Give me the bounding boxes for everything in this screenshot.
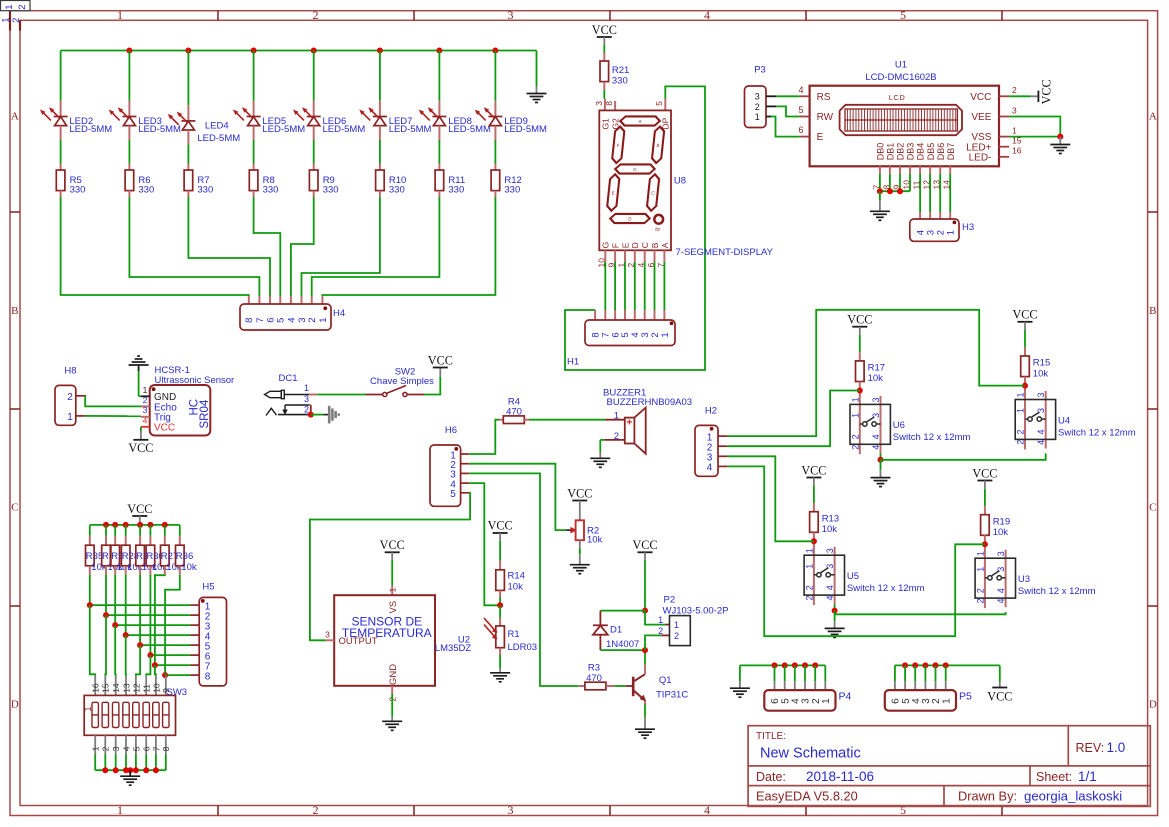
resistor R28 10k bbox=[121, 525, 142, 575]
svg-text:H4: H4 bbox=[333, 308, 345, 319]
svg-text:330: 330 bbox=[197, 185, 213, 196]
svg-text:4: 4 bbox=[707, 463, 713, 474]
sheet corner marker box bbox=[1, 1, 31, 23]
wire H5 pin 5 row bbox=[137, 642, 199, 648]
svg-text:D1: D1 bbox=[610, 624, 622, 635]
svg-text:4: 4 bbox=[871, 445, 881, 450]
svg-text:3: 3 bbox=[508, 8, 514, 22]
ground (U5) bbox=[825, 604, 845, 637]
junction R14/R1/H6.4 bbox=[497, 597, 503, 608]
svg-text:10k: 10k bbox=[868, 373, 884, 384]
svg-text:4: 4 bbox=[143, 415, 148, 425]
svg-text:2: 2 bbox=[755, 102, 760, 112]
svg-text:LED-5MM: LED-5MM bbox=[448, 124, 491, 135]
svg-text:DB0: DB0 bbox=[876, 143, 886, 161]
svg-text:H8: H8 bbox=[64, 366, 76, 377]
svg-text:2: 2 bbox=[804, 595, 814, 600]
wire H6.3 to R3 bbox=[469, 473, 579, 686]
svg-text:1: 1 bbox=[941, 698, 952, 704]
svg-text:LDR03: LDR03 bbox=[508, 642, 538, 653]
svg-text:470: 470 bbox=[586, 673, 602, 684]
svg-text:2: 2 bbox=[307, 318, 318, 323]
wire P3.1 to LCD E bbox=[771, 117, 800, 137]
LED4 LED-5MM bbox=[169, 51, 241, 145]
wire H6.5 to U2 OUTPUT bbox=[310, 493, 470, 641]
svg-text:TITLE:: TITLE: bbox=[756, 731, 786, 742]
svg-text:330: 330 bbox=[389, 185, 405, 196]
VCC (R19) bbox=[972, 466, 997, 488]
svg-text:2: 2 bbox=[17, 4, 28, 9]
svg-text:2: 2 bbox=[975, 598, 985, 603]
svg-text:1: 1 bbox=[1012, 125, 1017, 135]
svg-text:4: 4 bbox=[704, 8, 710, 22]
svg-text:16: 16 bbox=[91, 683, 101, 693]
svg-text:E: E bbox=[817, 132, 824, 143]
LED7 LED-5MM bbox=[360, 51, 432, 141]
U8 bottom pin numbers bbox=[597, 258, 666, 268]
resistor R33 10k bbox=[111, 525, 132, 575]
wire node to P2.2 bbox=[645, 635, 670, 650]
wire LED5 to H4 pin 5 bbox=[254, 197, 281, 304]
svg-text:Drawn By:: Drawn By: bbox=[958, 789, 1017, 804]
svg-text:1: 1 bbox=[1016, 392, 1026, 397]
svg-text:1: 1 bbox=[975, 567, 985, 572]
SW3 bottom pins bbox=[91, 735, 172, 770]
resistor R17 10k bbox=[856, 335, 886, 384]
svg-text:1: 1 bbox=[850, 397, 860, 402]
svg-text:EasyEDA V5.8.20: EasyEDA V5.8.20 bbox=[756, 789, 858, 804]
resistor R8 330 bbox=[249, 140, 278, 197]
wire H5 pin 3 row bbox=[112, 622, 199, 628]
svg-text:3: 3 bbox=[1036, 392, 1046, 397]
svg-text:1: 1 bbox=[117, 8, 123, 22]
svg-text:WJ103-5.00-2P: WJ103-5.00-2P bbox=[663, 606, 729, 617]
svg-text:G1: G1 bbox=[600, 118, 610, 130]
svg-text:1: 1 bbox=[755, 112, 760, 122]
svg-text:VCC: VCC bbox=[380, 538, 405, 552]
svg-text:P5: P5 bbox=[959, 691, 972, 703]
wire H5 pin 8 row bbox=[162, 672, 199, 678]
svg-text:3: 3 bbox=[304, 394, 309, 404]
svg-text:8: 8 bbox=[604, 101, 614, 106]
resistor R12 330 bbox=[491, 140, 522, 197]
resistor R4 470 bbox=[499, 396, 529, 423]
svg-text:330: 330 bbox=[448, 185, 464, 196]
switch SW2 Chave Simples bbox=[366, 366, 435, 396]
sheet row letters right bbox=[1149, 111, 1157, 711]
svg-text:R14: R14 bbox=[508, 571, 525, 582]
svg-text:U8: U8 bbox=[674, 176, 686, 187]
wire LED4 to H4 pin 6 bbox=[188, 197, 270, 304]
resistor R30 10k bbox=[146, 525, 167, 575]
svg-text:DB2: DB2 bbox=[896, 143, 906, 161]
wire LCD VEE/VSS to ground bbox=[1009, 117, 1063, 140]
svg-text:R13: R13 bbox=[822, 513, 839, 524]
svg-text:VCC: VCC bbox=[972, 466, 997, 480]
svg-text:1N4007: 1N4007 bbox=[606, 639, 639, 650]
wire P4 ground bus bbox=[740, 662, 825, 690]
connector P5 bbox=[885, 690, 972, 711]
svg-text:DB1: DB1 bbox=[886, 143, 896, 161]
wire SW2 to VCC bbox=[424, 376, 440, 394]
svg-text:U1: U1 bbox=[895, 60, 907, 71]
resistor R9 330 bbox=[309, 140, 338, 197]
resistor R35 10k bbox=[86, 525, 107, 575]
svg-text:C: C bbox=[1149, 502, 1156, 514]
wire H5 pin 2 row bbox=[103, 612, 199, 618]
svg-text:H5: H5 bbox=[202, 582, 214, 593]
sheet row letters left bbox=[11, 111, 19, 711]
svg-text:2: 2 bbox=[11, 18, 22, 23]
svg-text:OUTPUT: OUTPUT bbox=[339, 636, 378, 647]
svg-text:U4: U4 bbox=[1058, 415, 1070, 426]
LCD module U1 LCD-DMC1602B bbox=[810, 60, 999, 167]
ground (HC-SR04 GND) bbox=[129, 356, 149, 396]
svg-text:330: 330 bbox=[70, 185, 86, 196]
junction dot (R17) bbox=[857, 388, 863, 394]
wire P3.2 to LCD RW bbox=[776, 106, 799, 116]
wire buzzer.2 to ground bbox=[600, 440, 604, 452]
svg-text:4: 4 bbox=[704, 803, 710, 817]
resistor R3 470 bbox=[579, 663, 615, 690]
ground (U6) bbox=[871, 453, 891, 486]
diode D1 1N4007 bbox=[593, 611, 648, 654]
svg-text:4: 4 bbox=[825, 595, 835, 600]
svg-text:2: 2 bbox=[658, 626, 663, 636]
svg-text:B: B bbox=[1149, 305, 1156, 317]
wire H6.4 to R14/R1 node bbox=[469, 483, 497, 605]
svg-text:RW: RW bbox=[817, 112, 834, 123]
svg-text:P4: P4 bbox=[839, 691, 852, 703]
svg-text:3: 3 bbox=[871, 397, 881, 402]
svg-text:3: 3 bbox=[825, 548, 835, 553]
svg-text:1: 1 bbox=[946, 230, 957, 235]
svg-text:B: B bbox=[11, 305, 18, 317]
svg-text:B: B bbox=[650, 242, 660, 248]
junction dot (R15) bbox=[1022, 383, 1028, 389]
wire U3.4 to U5 ground node bbox=[835, 612, 1006, 614]
svg-text:330: 330 bbox=[263, 185, 279, 196]
svg-text:7: 7 bbox=[151, 746, 161, 751]
svg-text:B: B bbox=[656, 143, 660, 148]
svg-text:D: D bbox=[11, 699, 19, 711]
svg-text:3: 3 bbox=[825, 564, 835, 569]
svg-text:10k: 10k bbox=[508, 582, 524, 593]
LCD left pins RS RW E bbox=[798, 85, 833, 143]
svg-text:4: 4 bbox=[286, 318, 297, 323]
svg-text:Chave Simples: Chave Simples bbox=[370, 376, 434, 387]
wire H8.1 to Trig bbox=[85, 415, 141, 417]
ground (P4) bbox=[730, 665, 750, 697]
svg-text:DB4: DB4 bbox=[916, 143, 926, 161]
wire P5 VCC bus bbox=[895, 662, 1000, 690]
svg-text:LM35DZ: LM35DZ bbox=[435, 643, 472, 654]
VCC (R2) bbox=[567, 486, 592, 520]
svg-text:P3: P3 bbox=[754, 64, 766, 75]
wires DB4-DB7 to H3 bbox=[920, 174, 950, 219]
svg-text:DB6: DB6 bbox=[936, 143, 946, 161]
wire LED6 to H4 pin 4 bbox=[291, 197, 314, 304]
svg-text:E: E bbox=[611, 191, 615, 196]
svg-text:Switch 12 x 12mm: Switch 12 x 12mm bbox=[1018, 586, 1096, 597]
svg-text:4: 4 bbox=[798, 85, 803, 95]
svg-text:D: D bbox=[1149, 699, 1157, 711]
svg-text:DB7: DB7 bbox=[946, 143, 956, 161]
svg-text:1: 1 bbox=[804, 548, 814, 553]
wire U8 DP pin5 to H1 pin8 bbox=[565, 86, 705, 370]
svg-text:A: A bbox=[660, 242, 670, 248]
svg-text:2: 2 bbox=[850, 445, 860, 450]
ground (LCD VSS) bbox=[1050, 137, 1070, 154]
svg-text:1: 1 bbox=[674, 620, 679, 630]
svg-text:2018-11-06: 2018-11-06 bbox=[806, 769, 874, 784]
wire H5 pin 7 row bbox=[152, 662, 199, 668]
svg-text:4: 4 bbox=[121, 746, 131, 751]
svg-text:1: 1 bbox=[117, 803, 123, 817]
resistor R11 330 bbox=[435, 140, 465, 197]
svg-text:R15: R15 bbox=[1033, 358, 1050, 369]
resistor R15 10k bbox=[1021, 330, 1051, 379]
svg-text:BUZZERHNB09A03: BUZZERHNB09A03 bbox=[607, 397, 693, 408]
svg-text:LCD: LCD bbox=[889, 93, 906, 102]
wire VCC to P2/D1 node bbox=[642, 561, 648, 614]
svg-text:1: 1 bbox=[975, 551, 985, 556]
svg-text:4: 4 bbox=[996, 598, 1006, 603]
svg-text:TIP31C: TIP31C bbox=[656, 690, 688, 701]
wire node to P2.1 bbox=[645, 611, 670, 625]
svg-text:VCC: VCC bbox=[987, 690, 1012, 704]
svg-text:2: 2 bbox=[1016, 429, 1026, 434]
svg-text:4: 4 bbox=[1036, 429, 1046, 434]
svg-text:A: A bbox=[1149, 111, 1157, 123]
svg-text:5: 5 bbox=[131, 746, 141, 751]
wire H5 pin 4 row bbox=[123, 632, 200, 638]
svg-text:VCC: VCC bbox=[154, 423, 175, 434]
svg-text:1: 1 bbox=[821, 698, 832, 704]
svg-text:DC1: DC1 bbox=[278, 373, 297, 384]
LCD data pin numbers 7-14 bbox=[871, 180, 951, 190]
svg-text:10k: 10k bbox=[1033, 368, 1049, 379]
resistor R7 330 bbox=[184, 144, 213, 197]
svg-text:4: 4 bbox=[825, 585, 835, 590]
svg-text:VEE: VEE bbox=[971, 112, 991, 123]
ground (R2) bbox=[570, 540, 590, 574]
wire VCC-LED bus bbox=[61, 50, 537, 52]
svg-text:P2: P2 bbox=[664, 595, 676, 606]
resistor R36 10k bbox=[176, 525, 197, 575]
junction dot DC1 pins 2-3 bbox=[308, 412, 314, 418]
svg-text:2: 2 bbox=[143, 395, 148, 405]
svg-text:Switch 12 x 12mm: Switch 12 x 12mm bbox=[847, 583, 925, 594]
junction dots (network bus) bbox=[103, 522, 168, 528]
resistor R27 10k bbox=[161, 525, 182, 575]
svg-text:LED-: LED- bbox=[969, 152, 992, 163]
svg-text:Sheet:: Sheet: bbox=[1036, 770, 1072, 784]
wire H8.2 to Echo bbox=[85, 396, 141, 407]
svg-text:2: 2 bbox=[850, 434, 860, 439]
svg-text:12: 12 bbox=[131, 683, 141, 693]
svg-text:3: 3 bbox=[143, 405, 148, 415]
svg-text:13: 13 bbox=[121, 683, 131, 693]
svg-text:A: A bbox=[11, 111, 19, 123]
wire DB0-DB3 to ground bus bbox=[877, 174, 910, 194]
svg-text:3: 3 bbox=[871, 413, 881, 418]
svg-text:SR04: SR04 bbox=[199, 399, 211, 428]
wire R3 to Q1 base bbox=[615, 685, 632, 687]
LED9 LED-5MM bbox=[476, 51, 548, 141]
svg-text:1: 1 bbox=[388, 587, 398, 592]
svg-text:2: 2 bbox=[101, 746, 111, 751]
LCD right pins VCC VEE VSS LED+ LED- bbox=[966, 85, 1022, 163]
VCC (R15) bbox=[1012, 308, 1037, 330]
svg-text:H6: H6 bbox=[445, 425, 457, 436]
svg-text:dp: dp bbox=[655, 227, 661, 232]
svg-text:1: 1 bbox=[850, 413, 860, 418]
wire VCC bus (resistor network) bbox=[90, 524, 180, 526]
wire H2.3 to R13/U5 bbox=[727, 456, 814, 541]
svg-text:Switch 12 x 12mm: Switch 12 x 12mm bbox=[893, 432, 971, 443]
svg-text:VCC: VCC bbox=[488, 519, 513, 533]
resistor R13 10k bbox=[810, 486, 840, 535]
wire U4.4 to U6 ground node bbox=[881, 453, 1046, 459]
resistor R21 330 bbox=[600, 45, 629, 99]
svg-text:16: 16 bbox=[1012, 146, 1022, 156]
svg-text:3: 3 bbox=[1012, 105, 1017, 115]
DIP switch SW3 bbox=[83, 687, 187, 736]
LED3 LED-5MM bbox=[110, 51, 182, 141]
tactile switch U3 Switch 12 x 12mm bbox=[975, 535, 1095, 608]
svg-text:New Schematic: New Schematic bbox=[760, 746, 861, 762]
VCC (LCD) bbox=[1009, 79, 1053, 104]
svg-text:VCC: VCC bbox=[847, 313, 872, 327]
svg-text:2: 2 bbox=[804, 585, 814, 590]
svg-text:10k: 10k bbox=[822, 524, 838, 535]
LED5 LED-5MM bbox=[234, 51, 306, 141]
svg-text:2: 2 bbox=[313, 803, 319, 817]
svg-text:1: 1 bbox=[804, 564, 814, 569]
svg-text:U5: U5 bbox=[847, 571, 859, 582]
svg-text:VCC: VCC bbox=[801, 463, 826, 477]
wire R4 to buzzer bbox=[529, 419, 625, 421]
svg-text:SW3: SW3 bbox=[167, 687, 188, 698]
LED8 LED-5MM bbox=[420, 51, 492, 141]
wire H2.4 to R19/U3 bbox=[727, 466, 985, 636]
svg-text:R35: R35 bbox=[86, 551, 103, 562]
svg-text:georgia_laskoski: georgia_laskoski bbox=[1024, 789, 1122, 804]
resistor R5 330 bbox=[56, 140, 85, 197]
wire VCC to U2 pin1 bbox=[391, 560, 393, 595]
tactile switch U6 Switch 12 x 12mm bbox=[850, 382, 970, 455]
svg-text:VS: VS bbox=[388, 601, 399, 614]
svg-text:6: 6 bbox=[798, 125, 803, 135]
svg-text:1: 1 bbox=[1, 18, 12, 23]
svg-text:LED-5MM: LED-5MM bbox=[323, 124, 366, 135]
svg-text:Q1: Q1 bbox=[659, 675, 672, 686]
wire H2.2 to R17/U6 bbox=[727, 391, 859, 447]
resistor R10 330 bbox=[376, 140, 407, 197]
svg-text:1: 1 bbox=[143, 385, 148, 395]
connector H2 bbox=[695, 406, 727, 477]
svg-text:1: 1 bbox=[91, 746, 101, 751]
sheet column numbers bottom bbox=[117, 803, 906, 817]
connector H3 bbox=[910, 219, 974, 241]
svg-text:4: 4 bbox=[871, 434, 881, 439]
tactile switch U5 Switch 12 x 12mm bbox=[804, 532, 924, 605]
junction dot (R19) bbox=[982, 541, 988, 547]
svg-text:1: 1 bbox=[318, 318, 329, 323]
svg-text:F: F bbox=[611, 243, 621, 248]
svg-text:R1: R1 bbox=[508, 629, 520, 640]
VCC (R13) bbox=[801, 463, 826, 485]
tactile switch U4 Switch 12 x 12mm bbox=[1015, 377, 1135, 450]
DC jack DC1 bbox=[265, 373, 318, 416]
svg-text:D: D bbox=[630, 242, 640, 248]
svg-text:2: 2 bbox=[1016, 440, 1026, 445]
resistor R34 10k bbox=[136, 525, 157, 575]
connector H4 bbox=[240, 304, 345, 330]
svg-text:R3: R3 bbox=[588, 663, 600, 674]
svg-text:5: 5 bbox=[900, 8, 906, 22]
svg-text:2: 2 bbox=[1012, 85, 1017, 95]
svg-text:6: 6 bbox=[142, 746, 152, 751]
svg-text:LED-5MM: LED-5MM bbox=[138, 124, 181, 135]
svg-text:2: 2 bbox=[313, 8, 319, 22]
VCC (resistor network) bbox=[127, 502, 152, 525]
svg-text:LED-5MM: LED-5MM bbox=[262, 124, 305, 135]
svg-text:11: 11 bbox=[142, 684, 152, 693]
ultrasonic sensor U9 HC-SR04 bbox=[141, 365, 234, 436]
svg-text:Switch 12 x 12mm: Switch 12 x 12mm bbox=[1058, 427, 1136, 438]
svg-text:3: 3 bbox=[111, 746, 121, 751]
svg-text:5: 5 bbox=[450, 489, 456, 500]
VCC (R14) bbox=[488, 519, 513, 541]
7-segment display U8 bbox=[594, 99, 686, 251]
svg-text:RS: RS bbox=[817, 92, 831, 103]
wire P3.3 to LCD RS bbox=[776, 95, 799, 97]
svg-text:2: 2 bbox=[67, 392, 73, 403]
connector H5 bbox=[199, 582, 226, 686]
ground (LED bus) bbox=[527, 51, 547, 103]
svg-text:GND: GND bbox=[388, 664, 399, 685]
svg-text:3: 3 bbox=[1036, 408, 1046, 413]
VCC (R17) bbox=[847, 313, 872, 335]
connector H8 bbox=[55, 366, 85, 426]
svg-text:7-SEGMENT-DISPLAY: 7-SEGMENT-DISPLAY bbox=[676, 247, 774, 258]
wire LED2 to H4 pin 8 bbox=[61, 197, 249, 304]
VCC (HC-SR04) bbox=[128, 427, 153, 455]
svg-text:VCC: VCC bbox=[1012, 308, 1037, 322]
ground (buzzer) bbox=[590, 452, 610, 467]
connector H1 bbox=[567, 320, 675, 368]
svg-text:8: 8 bbox=[205, 671, 211, 682]
svg-text:VCC: VCC bbox=[632, 538, 657, 552]
svg-text:C: C bbox=[11, 502, 18, 514]
junction dots on LED bus bbox=[126, 48, 498, 54]
label 7-SEGMENT-DISPLAY bbox=[676, 247, 774, 258]
svg-text:3: 3 bbox=[996, 567, 1006, 572]
svg-text:3: 3 bbox=[325, 629, 330, 639]
svg-text:7: 7 bbox=[255, 318, 266, 323]
svg-text:DB3: DB3 bbox=[906, 143, 916, 161]
wire LED8 to H4 pin 2 bbox=[312, 197, 440, 304]
svg-text:H3: H3 bbox=[962, 222, 974, 233]
svg-text:1: 1 bbox=[4, 4, 15, 9]
svg-text:2: 2 bbox=[975, 588, 985, 593]
svg-text:VCC: VCC bbox=[128, 441, 153, 455]
svg-text:10: 10 bbox=[151, 683, 161, 693]
resistor R19 10k bbox=[981, 489, 1011, 538]
temperature sensor U2 LM35DZ bbox=[325, 587, 471, 701]
